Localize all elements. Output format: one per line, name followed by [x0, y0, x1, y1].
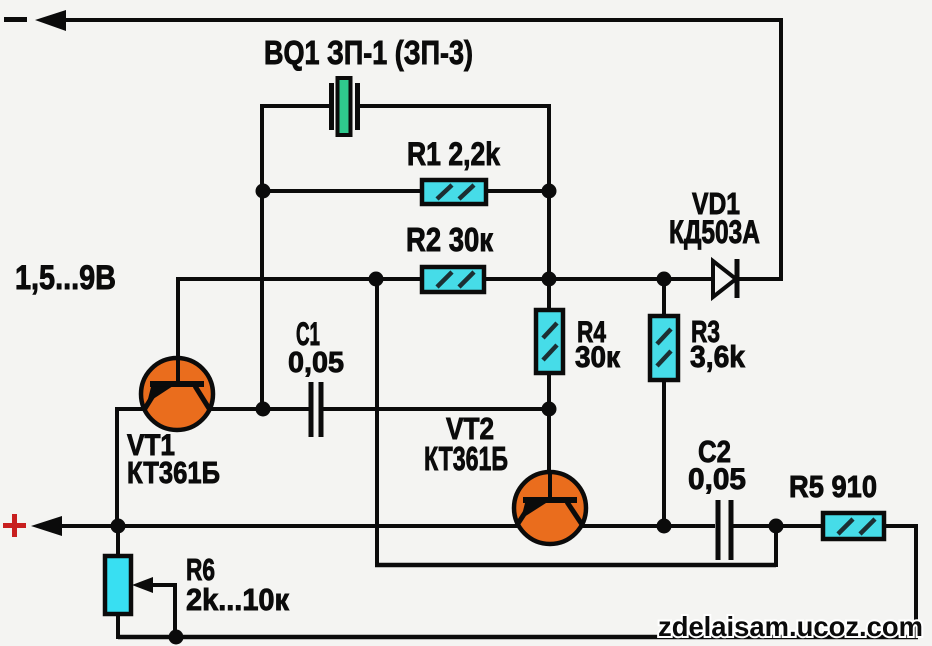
wire R2 row left	[178, 277, 424, 281]
junction R2 row at x376	[369, 272, 384, 287]
svg-text:R1 2,2k: R1 2,2k	[407, 136, 500, 172]
junction plus rail at x776	[769, 519, 784, 534]
wire R6 top lead	[116, 524, 120, 558]
transistor VT2	[514, 472, 586, 544]
transistor VT1	[141, 358, 213, 430]
junction plus rail at x664	[657, 519, 672, 534]
wire R2 right to diode	[482, 277, 713, 281]
wire bottom rail	[118, 635, 918, 640]
wire top rail horizontal	[60, 18, 781, 22]
minus terminal symbol	[4, 17, 27, 22]
wire top rail right vertical	[779, 18, 783, 281]
wire C2 right to R5	[731, 524, 825, 528]
wire BQ1 right	[358, 104, 549, 108]
wire plus rail	[58, 524, 519, 528]
svg-text:КТ361Б: КТ361Б	[127, 455, 220, 490]
junction R1 left	[256, 184, 271, 199]
resistor R2	[422, 267, 484, 292]
svg-text:0,05: 0,05	[688, 463, 746, 496]
wire plus rail right of VT2	[581, 524, 715, 528]
svg-text:BQ1 ЗП-1 (ЗП-3): BQ1 ЗП-1 (ЗП-3)	[264, 34, 473, 71]
svg-text:3,6k: 3,6k	[690, 339, 746, 374]
wire VT1 emitter down vertical x117	[115, 407, 119, 526]
resistor R4	[536, 310, 563, 373]
capacitor C2	[718, 500, 731, 560]
svg-text:zdelaisam.ucoz.com: zdelaisam.ucoz.com	[658, 611, 923, 642]
wire feedback vertical x377	[375, 279, 379, 565]
wire R6 wiper	[150, 585, 175, 637]
capacitor C1	[311, 382, 321, 437]
junction R1 right	[542, 184, 557, 199]
wire C1 row left through VT1	[115, 407, 146, 411]
wire feedback right vertical x776	[774, 526, 778, 567]
junction C1 row at x549	[542, 402, 557, 417]
wire R6 bottom lead	[116, 612, 120, 639]
wire VT1 base vertical	[176, 277, 180, 384]
wire R3 top lead	[662, 279, 666, 318]
wire R4 to VT2 base	[547, 373, 551, 500]
junction C1 row at x263	[256, 402, 271, 417]
resistor R1	[422, 180, 486, 204]
svg-text:1,5...9В: 1,5...9В	[15, 259, 116, 297]
svg-text:КД503А: КД503А	[669, 214, 760, 250]
plus terminal arrow	[31, 516, 62, 536]
wire R1 left	[262, 189, 424, 193]
plus terminal symbol	[3, 514, 26, 537]
svg-text:2k...10к: 2k...10к	[186, 582, 289, 617]
resistor R3	[650, 316, 678, 380]
wire R5 right	[884, 524, 916, 528]
junction R2 row at x549	[542, 272, 557, 287]
wire R3 bottom lead	[662, 380, 666, 526]
junction plus rail at x118	[111, 519, 126, 534]
svg-text:R2 30к: R2 30к	[406, 221, 493, 258]
R6 wiper arrow	[132, 577, 153, 593]
wire BQ1 left	[262, 104, 331, 108]
wire feedback bottom horizontal	[375, 563, 776, 568]
diode VD1	[713, 259, 737, 298]
junction bottom rail wiper	[169, 630, 184, 645]
resistor R5	[823, 513, 884, 539]
svg-text:0,05: 0,05	[288, 347, 344, 379]
wire right vertical x916	[914, 524, 918, 639]
piezo sounder BQ1	[332, 78, 358, 135]
svg-text:R5 910: R5 910	[789, 469, 877, 504]
wire diode cathode to corner	[737, 277, 783, 281]
svg-text:КТ361Б: КТ361Б	[424, 440, 508, 477]
wire mid vertical BQ1 to R4	[547, 104, 551, 312]
junction R2 row at x664	[657, 272, 672, 287]
wire C1 row right	[321, 407, 549, 411]
wire R1 right	[484, 189, 549, 193]
minus terminal arrow	[35, 10, 66, 31]
svg-text:30к: 30к	[575, 341, 621, 374]
wire left vertical from BQ1	[260, 104, 264, 409]
wire C1 row VT1 right side	[208, 407, 311, 411]
potentiometer R6	[105, 556, 131, 614]
